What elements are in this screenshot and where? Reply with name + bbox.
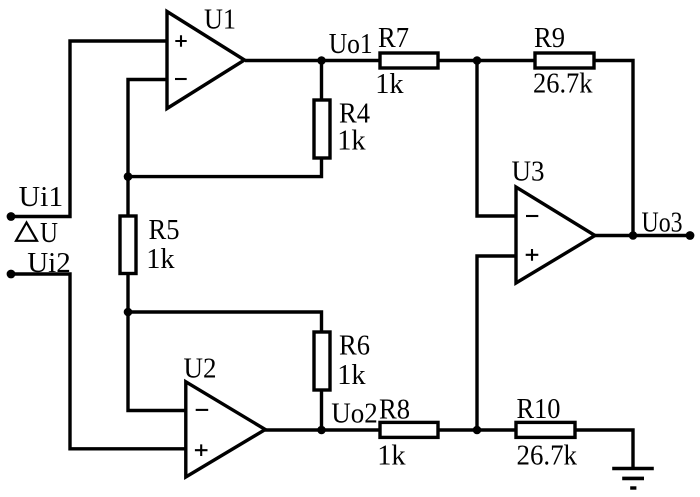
wire U3 non-inverting input down to R8/R10 junction <box>477 256 517 430</box>
svg-text:R6: R6 <box>339 330 370 362</box>
op-amp U1 <box>167 12 245 109</box>
svg-text:R9: R9 <box>534 22 565 54</box>
svg-text:26.7k: 26.7k <box>517 440 578 472</box>
wire Ui2 to U2 non-inverting input <box>11 274 187 449</box>
resistor R10 <box>516 422 575 437</box>
resistor R4 <box>314 100 330 158</box>
svg-text:U2: U2 <box>184 353 217 385</box>
svg-text:Uo1: Uo1 <box>329 28 373 60</box>
resistor R6 <box>314 332 330 390</box>
svg-text:Uo3: Uo3 <box>642 207 683 239</box>
node Uo3 junction <box>629 231 638 240</box>
terminal Uo3 <box>686 231 695 240</box>
svg-text:1k: 1k <box>377 440 406 472</box>
wire node B to R6 top branch <box>128 312 322 430</box>
node R8/R10 junction <box>473 426 482 435</box>
svg-text:1k: 1k <box>146 243 175 275</box>
wire node A to R4 bottom branch <box>128 61 322 177</box>
svg-text:R7: R7 <box>378 22 409 54</box>
svg-text:U: U <box>40 217 58 249</box>
terminal Ui2 <box>7 270 16 279</box>
node B junction (R5 bottom) <box>124 308 133 317</box>
svg-text:Ui1: Ui1 <box>19 181 64 213</box>
svg-text:U1: U1 <box>204 4 236 36</box>
wire top rail U1 output through R7 R9 to Uo3 node <box>245 61 633 236</box>
svg-text:26.7k: 26.7k <box>533 68 593 100</box>
node Uo1 junction <box>317 56 326 65</box>
wire bottom rail U2 output through R8 R10 to ground <box>265 430 633 469</box>
node Uo2 junction <box>317 426 326 435</box>
wire Ui1 to U1 non-inverting input <box>11 41 167 217</box>
wire R7/R9 junction down to U3 inverting input <box>477 61 517 217</box>
svg-text:R8: R8 <box>379 394 410 426</box>
svg-text:1k: 1k <box>375 68 404 100</box>
label delta-U triangle <box>16 223 37 241</box>
svg-text:R10: R10 <box>517 393 561 425</box>
wire U1 inverting input down through R5 to U2 inverting input <box>128 80 187 411</box>
ground <box>612 469 654 489</box>
resistor R9 <box>535 53 594 68</box>
svg-text:Uo2: Uo2 <box>331 398 378 430</box>
terminal Ui1 <box>7 212 16 221</box>
resistor R5 <box>120 216 136 274</box>
node A junction (R5 top) <box>124 172 133 181</box>
svg-text:Ui2: Ui2 <box>27 247 70 279</box>
op-amp U3 <box>516 187 595 283</box>
svg-text:1k: 1k <box>337 125 366 157</box>
resistor R7 <box>380 53 438 68</box>
svg-text:R5: R5 <box>149 214 180 246</box>
op-amp U2 <box>186 382 265 477</box>
svg-text:U3: U3 <box>512 156 545 188</box>
resistor R8 <box>380 422 438 437</box>
svg-text:1k: 1k <box>337 359 366 391</box>
node R7/R9 junction <box>473 56 482 65</box>
wire U3 output to Uo3 terminal <box>595 234 690 237</box>
